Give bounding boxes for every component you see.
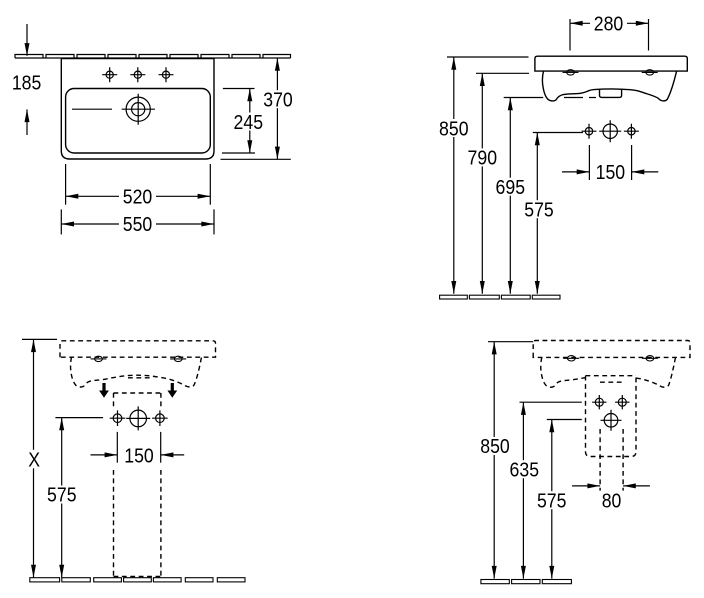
dimension 790 [476,73,529,293]
dimension 850 (wall view) [447,57,529,294]
dimension 150 (pedestal view) [91,432,185,463]
extension dashed 80 left [599,429,601,491]
cover cross small left [592,395,606,409]
mounting hole right (cover view) [642,356,658,361]
svg-text:520: 520 [123,187,153,209]
insertion arrow right (filled) [167,383,177,398]
svg-text:635: 635 [510,459,540,481]
tap hole cross 3 [159,67,174,82]
basin body profile dashed [71,357,202,387]
drain hole (two circles with cross) [122,94,155,125]
dimension 280 [570,19,649,51]
cover cross big [601,410,622,431]
mounting hole right [642,70,658,75]
tap hole cross 1 [102,67,117,82]
mounting hole left [563,70,579,75]
wall fitting cross small left [582,124,597,139]
dimension 80 [572,485,650,487]
basin body right part [636,357,676,387]
extension dashed 80 right [622,429,624,491]
siphon cover dashed [586,375,637,377]
insertion arrow left (filled) [99,383,109,398]
tap hole cross 2 [130,67,145,82]
svg-text:X: X [28,449,40,471]
dimension 575 (wall view) [533,133,583,294]
mounting hole right dashed view [170,356,186,361]
fixing cross small left [110,410,126,426]
floor hatch (pedestal view) [30,578,245,582]
dimension 575 (cover view) [547,420,582,579]
svg-text:550: 550 [123,214,153,236]
basin inner bowl (plan) [66,89,211,154]
hidden line under bowl [128,377,150,379]
svg-text:575: 575 [537,490,567,512]
svg-text:370: 370 [263,90,293,112]
wall hatch line [15,55,291,59]
cover cross small right [615,395,629,409]
centerline to drain [72,108,112,110]
dimension 850 (cover view) [488,342,533,579]
dimension 520 [66,164,211,205]
svg-text:575: 575 [47,485,77,507]
wall fitting cross big [599,120,621,142]
svg-text:185: 185 [12,73,42,95]
dimension 245 [222,89,255,154]
wall fitting cross small right [624,124,639,139]
svg-text:790: 790 [468,148,498,170]
hidden bottom dash line [564,97,596,99]
dimension 370 [221,58,291,159]
dimension 695 [504,98,544,294]
basin body profile (front) [542,71,676,101]
svg-text:280: 280 [594,14,624,36]
hidden line under bowl (cover view) [600,381,624,383]
floor hatch (cover view) [481,580,571,584]
fixing cross big [126,406,150,430]
floor hatch (wall view) [440,295,560,299]
svg-text:850: 850 [480,436,510,458]
svg-text:695: 695 [496,177,526,199]
drain outlet box [600,90,622,98]
svg-text:245: 245 [234,112,264,134]
dimension X [22,339,57,577]
dimension 185 [26,24,28,135]
mounting hole left (cover view) [563,356,579,361]
basin outer rim (plan) [61,59,214,160]
pedestal dashed [114,393,161,578]
svg-text:80: 80 [602,490,622,512]
basin body left part [541,357,586,387]
svg-text:575: 575 [524,199,554,221]
dimension 575 (pedestal view) [55,418,103,578]
dimension 635 [520,402,582,578]
fixing cross small right [152,410,168,426]
svg-text:150: 150 [596,162,626,184]
svg-text:150: 150 [124,445,154,467]
basin rim dashed (cover view) [533,341,690,358]
dimension 150 (wall view) [562,145,658,180]
basin rim dashed [60,341,216,357]
basin rim (front) [535,56,687,71]
svg-text:850: 850 [439,118,469,140]
mounting hole left dashed view [91,356,107,361]
dimension 550 [61,209,214,234]
